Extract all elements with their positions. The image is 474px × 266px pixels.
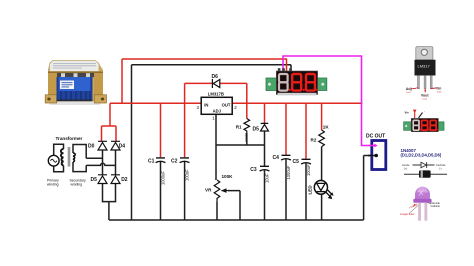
svg-text:VIn: VIn xyxy=(405,111,409,115)
svg-text:R1: R1 xyxy=(236,125,242,130)
svg-text:220R: 220R xyxy=(244,133,248,142)
svg-text:1: 1 xyxy=(212,115,215,120)
svg-text:1K: 1K xyxy=(323,125,330,130)
svg-text:(D1,D2,D3,D4,D5,D6): (D1,D2,D3,D4,D5,D6) xyxy=(401,153,442,158)
svg-text:D2: D2 xyxy=(121,177,128,183)
svg-text:3: 3 xyxy=(197,105,200,110)
svg-text:(+): (+) xyxy=(404,166,407,170)
svg-text:ADJ: ADJ xyxy=(213,109,222,114)
svg-text:D0: D0 xyxy=(88,144,95,150)
svg-text:winding: winding xyxy=(71,183,83,187)
svg-text:Transformer: Transformer xyxy=(56,136,83,141)
svg-text:+ Anode: + Anode xyxy=(408,202,419,210)
svg-text:(-): (-) xyxy=(439,166,442,170)
svg-text:C2: C2 xyxy=(171,158,178,164)
svg-text:Longer lead: Longer lead xyxy=(400,212,414,216)
svg-text:LM317B: LM317B xyxy=(208,92,224,97)
svg-text:LED: LED xyxy=(308,185,313,195)
svg-text:winding: winding xyxy=(47,183,59,187)
svg-text:(in2): (in2) xyxy=(437,92,442,94)
svg-text:100K: 100K xyxy=(222,174,234,179)
svg-text:OUT: OUT xyxy=(222,102,231,107)
svg-text:DC OUT: DC OUT xyxy=(366,134,385,140)
svg-text:10uF: 10uF xyxy=(264,173,269,183)
svg-text:D6: D6 xyxy=(212,74,219,80)
svg-text:Cathode: Cathode xyxy=(431,205,441,208)
svg-text:C5: C5 xyxy=(293,159,300,165)
svg-text:C3: C3 xyxy=(250,167,257,173)
svg-text:R2: R2 xyxy=(311,138,317,143)
svg-text:-: - xyxy=(424,111,425,114)
svg-text:IN: IN xyxy=(204,102,208,107)
svg-text:Vin: Vin xyxy=(436,87,442,91)
svg-text:Vout: Vout xyxy=(421,94,430,98)
svg-text:D4: D4 xyxy=(119,144,126,150)
svg-text:2: 2 xyxy=(234,105,237,110)
svg-text:LM317: LM317 xyxy=(418,64,431,69)
svg-text:1000uF: 1000uF xyxy=(286,165,291,179)
svg-text:(out): (out) xyxy=(423,98,428,101)
svg-text:D5: D5 xyxy=(253,127,260,133)
svg-text:D5: D5 xyxy=(91,177,98,183)
svg-text:100uF: 100uF xyxy=(184,169,189,181)
svg-text:(in1): (in1) xyxy=(407,92,412,94)
svg-text:1000uF: 1000uF xyxy=(160,171,165,185)
svg-text:100uF: 100uF xyxy=(306,164,311,176)
svg-text:C1: C1 xyxy=(148,158,155,164)
svg-text:VR: VR xyxy=(205,188,212,193)
svg-text:Adj: Adj xyxy=(406,87,412,91)
svg-text:C4: C4 xyxy=(273,155,280,161)
